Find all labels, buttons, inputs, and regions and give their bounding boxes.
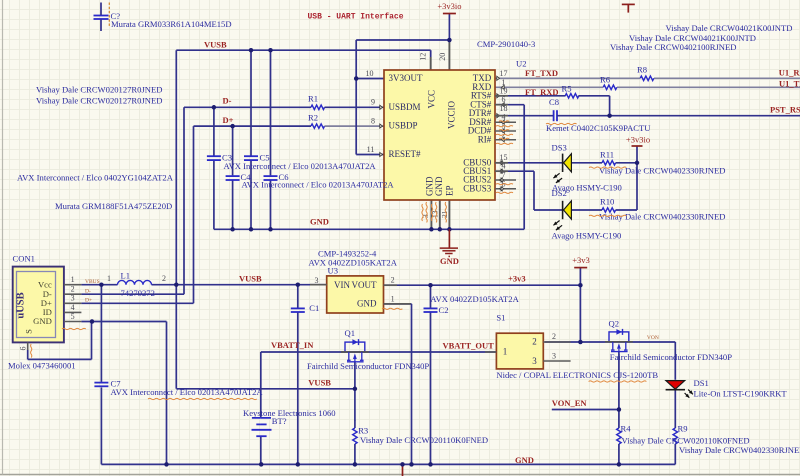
svg-text:C3: C3 [222, 152, 232, 162]
svg-text:1: 1 [107, 274, 111, 283]
svg-text:6: 6 [18, 347, 27, 351]
svg-text:CBUS3: CBUS3 [463, 183, 492, 193]
svg-text:R5: R5 [562, 83, 572, 93]
svg-text:D-: D- [85, 288, 91, 294]
svg-text:VUSB: VUSB [308, 378, 331, 388]
svg-text:Nidec / COPAL ELECTRONICS CJS-: Nidec / COPAL ELECTRONICS CJS-1200TB [496, 370, 658, 380]
svg-text:74279272: 74279272 [121, 288, 155, 298]
svg-text:AVX Interconnect / Elco 0402YG: AVX Interconnect / Elco 0402YG104ZAT2A [17, 172, 174, 182]
svg-text:VUSB: VUSB [204, 39, 227, 49]
svg-text:Avago HSMY-C190: Avago HSMY-C190 [552, 231, 622, 241]
svg-text:U3: U3 [328, 266, 339, 276]
svg-text:C8: C8 [549, 97, 559, 107]
svg-text:20: 20 [438, 53, 447, 61]
svg-text:+3v3: +3v3 [508, 273, 526, 283]
svg-text:U2: U2 [516, 58, 527, 68]
svg-text:GND: GND [440, 256, 459, 266]
svg-text:2: 2 [532, 336, 537, 346]
svg-text:21: 21 [440, 210, 449, 218]
svg-text:EP: EP [445, 185, 455, 196]
svg-text:AVX 0402ZD105KAT2A: AVX 0402ZD105KAT2A [309, 257, 398, 267]
svg-text:18: 18 [500, 104, 508, 113]
svg-text:CMP-2901040-3: CMP-2901040-3 [477, 39, 535, 49]
svg-text:AVX Interconnect / Elco 02013A: AVX Interconnect / Elco 02013A470JAT2A [224, 161, 377, 171]
svg-text:1: 1 [503, 346, 508, 356]
svg-text:R6: R6 [600, 74, 611, 84]
svg-text:VOUT: VOUT [352, 280, 377, 290]
svg-text:CON1: CON1 [13, 253, 35, 263]
svg-text:2: 2 [162, 274, 166, 283]
svg-text:GND: GND [515, 455, 534, 465]
svg-text:USB - UART Interface: USB - UART Interface [308, 13, 404, 22]
svg-text:6: 6 [502, 95, 506, 104]
svg-text:GND: GND [357, 299, 377, 309]
svg-text:C2: C2 [439, 305, 449, 315]
svg-text:R4: R4 [621, 423, 632, 433]
svg-text:3V3OUT: 3V3OUT [389, 73, 423, 83]
svg-text:12: 12 [419, 53, 428, 61]
svg-text:PST_RST: PST_RST [770, 104, 800, 114]
svg-text:4: 4 [502, 113, 506, 122]
svg-text:C1: C1 [309, 303, 319, 313]
svg-text:Vishay Dale CRCW020110K0FNED: Vishay Dale CRCW020110K0FNED [622, 435, 750, 445]
svg-text:Q1: Q1 [345, 328, 356, 338]
svg-text:VBATT_OUT: VBATT_OUT [443, 340, 495, 350]
svg-text:3: 3 [71, 294, 75, 303]
svg-text:Lite-On LTST-C190KRKT: Lite-On LTST-C190KRKT [694, 388, 788, 398]
svg-text:AVX 0402ZD105KAT2A: AVX 0402ZD105KAT2A [430, 294, 519, 304]
svg-text:D+: D+ [223, 115, 234, 125]
svg-text:R11: R11 [600, 149, 614, 159]
svg-text:Vishay Dale CRCW0402100RJNED: Vishay Dale CRCW0402100RJNED [610, 42, 736, 52]
svg-text:DS1: DS1 [694, 378, 709, 388]
svg-text:2: 2 [552, 332, 556, 341]
svg-text:4: 4 [502, 162, 506, 171]
svg-text:C6: C6 [279, 172, 290, 182]
svg-text:FT_RXD: FT_RXD [525, 87, 559, 97]
svg-text:8: 8 [371, 116, 375, 125]
svg-text:Molex 0473460001: Molex 0473460001 [8, 360, 76, 370]
svg-text:4: 4 [71, 303, 75, 312]
svg-text:Murata GRM188F51A475ZE20D: Murata GRM188F51A475ZE20D [55, 201, 172, 211]
svg-text:GND: GND [33, 316, 52, 326]
svg-text:C5: C5 [260, 152, 270, 162]
svg-text:Vishay Dale CRCW04021K00JNTD: Vishay Dale CRCW04021K00JNTD [666, 23, 793, 33]
svg-text:+3v3: +3v3 [572, 255, 590, 265]
svg-text:Vishay Dale CRCW0402330RJNED: Vishay Dale CRCW0402330RJNED [679, 445, 800, 455]
svg-text:5: 5 [71, 312, 75, 321]
svg-text:U1_TX: U1_TX [779, 78, 800, 88]
svg-text:S1: S1 [496, 312, 505, 322]
svg-text:Vishay Dale CRCW020127R0JNED: Vishay Dale CRCW020127R0JNED [36, 84, 162, 94]
svg-text:Fairchild Semiconductor FDN340: Fairchild Semiconductor FDN340P [307, 361, 429, 371]
svg-text:S: S [23, 329, 33, 334]
svg-text:USBDP: USBDP [389, 121, 418, 131]
svg-text:Q2: Q2 [609, 318, 620, 328]
svg-text:VON: VON [647, 335, 659, 341]
svg-text:Vishay Dale CRCW020110K0FNED: Vishay Dale CRCW020110K0FNED [360, 435, 488, 445]
svg-text:FT_TXD: FT_TXD [525, 68, 558, 78]
svg-text:R10: R10 [600, 197, 614, 207]
svg-text:Fairchild Semiconductor FDN340: Fairchild Semiconductor FDN340P [610, 352, 732, 362]
svg-text:7: 7 [502, 171, 506, 180]
svg-text:VUSB: VUSB [239, 273, 262, 283]
svg-text:uUSB: uUSB [15, 292, 26, 318]
svg-text:RI#: RI# [478, 134, 492, 144]
svg-text:3: 3 [532, 356, 537, 366]
svg-text:BT?: BT? [272, 416, 287, 426]
svg-text:Vcc: Vcc [38, 279, 52, 289]
svg-text:VON_EN: VON_EN [552, 398, 588, 408]
svg-text:1: 1 [391, 294, 395, 303]
svg-text:R2: R2 [308, 113, 318, 123]
svg-text:R9: R9 [678, 423, 688, 433]
svg-text:Murata GRM033R61A104ME15D: Murata GRM033R61A104ME15D [111, 19, 232, 29]
svg-text:DS3: DS3 [552, 142, 567, 152]
svg-text:GND: GND [434, 176, 444, 196]
svg-text:2: 2 [71, 285, 75, 294]
svg-text:Vishay Dale CRCW0402330RJNED: Vishay Dale CRCW0402330RJNED [599, 211, 725, 221]
svg-text:AVX Interconnect / Elco 02013A: AVX Interconnect / Elco 02013A470JAT2A [111, 387, 264, 397]
svg-text:9: 9 [371, 98, 375, 107]
svg-text:RESET#: RESET# [389, 149, 422, 159]
svg-text:Kemet C0402C105K9PACTU: Kemet C0402C105K9PACTU [546, 123, 651, 133]
svg-text:19: 19 [500, 86, 508, 95]
svg-text:R8: R8 [637, 65, 647, 75]
svg-text:D+: D+ [85, 297, 92, 303]
svg-text:10: 10 [366, 69, 374, 78]
svg-text:GND: GND [310, 216, 329, 226]
svg-text:VBUS: VBUS [85, 279, 100, 285]
svg-text:11: 11 [367, 145, 375, 154]
svg-text:+3v3io: +3v3io [626, 134, 650, 144]
svg-text:VBATT_IN: VBATT_IN [271, 340, 314, 350]
svg-text:R3: R3 [358, 425, 368, 435]
svg-text:R1: R1 [308, 93, 318, 103]
svg-text:AVX Interconnect / Elco 02013A: AVX Interconnect / Elco 02013A470JAT2A [242, 179, 395, 189]
svg-text:Avago HSMY-C190: Avago HSMY-C190 [552, 182, 622, 192]
svg-text:1: 1 [71, 275, 75, 284]
svg-text:17: 17 [500, 69, 508, 78]
svg-text:VCC: VCC [427, 90, 437, 109]
svg-text:L1: L1 [121, 270, 131, 280]
svg-text:+3v3: +3v3 [620, 0, 638, 2]
svg-text:VCCIO: VCCIO [446, 101, 456, 130]
svg-text:VIN: VIN [334, 280, 350, 290]
svg-text:C?: C? [111, 11, 121, 21]
svg-text:D-: D- [223, 96, 232, 106]
svg-text:3: 3 [315, 276, 319, 285]
svg-text:3: 3 [552, 351, 556, 360]
svg-text:U1_RX: U1_RX [779, 67, 800, 77]
svg-text:C4: C4 [241, 172, 252, 182]
svg-text:+3v3io: +3v3io [437, 1, 461, 11]
svg-text:USBDM: USBDM [389, 102, 421, 112]
svg-text:2: 2 [391, 276, 395, 285]
svg-text:Keystone Electronics 1060: Keystone Electronics 1060 [243, 408, 336, 418]
svg-text:Vishay Dale CRCW020127R0JNED: Vishay Dale CRCW020127R0JNED [36, 95, 162, 105]
